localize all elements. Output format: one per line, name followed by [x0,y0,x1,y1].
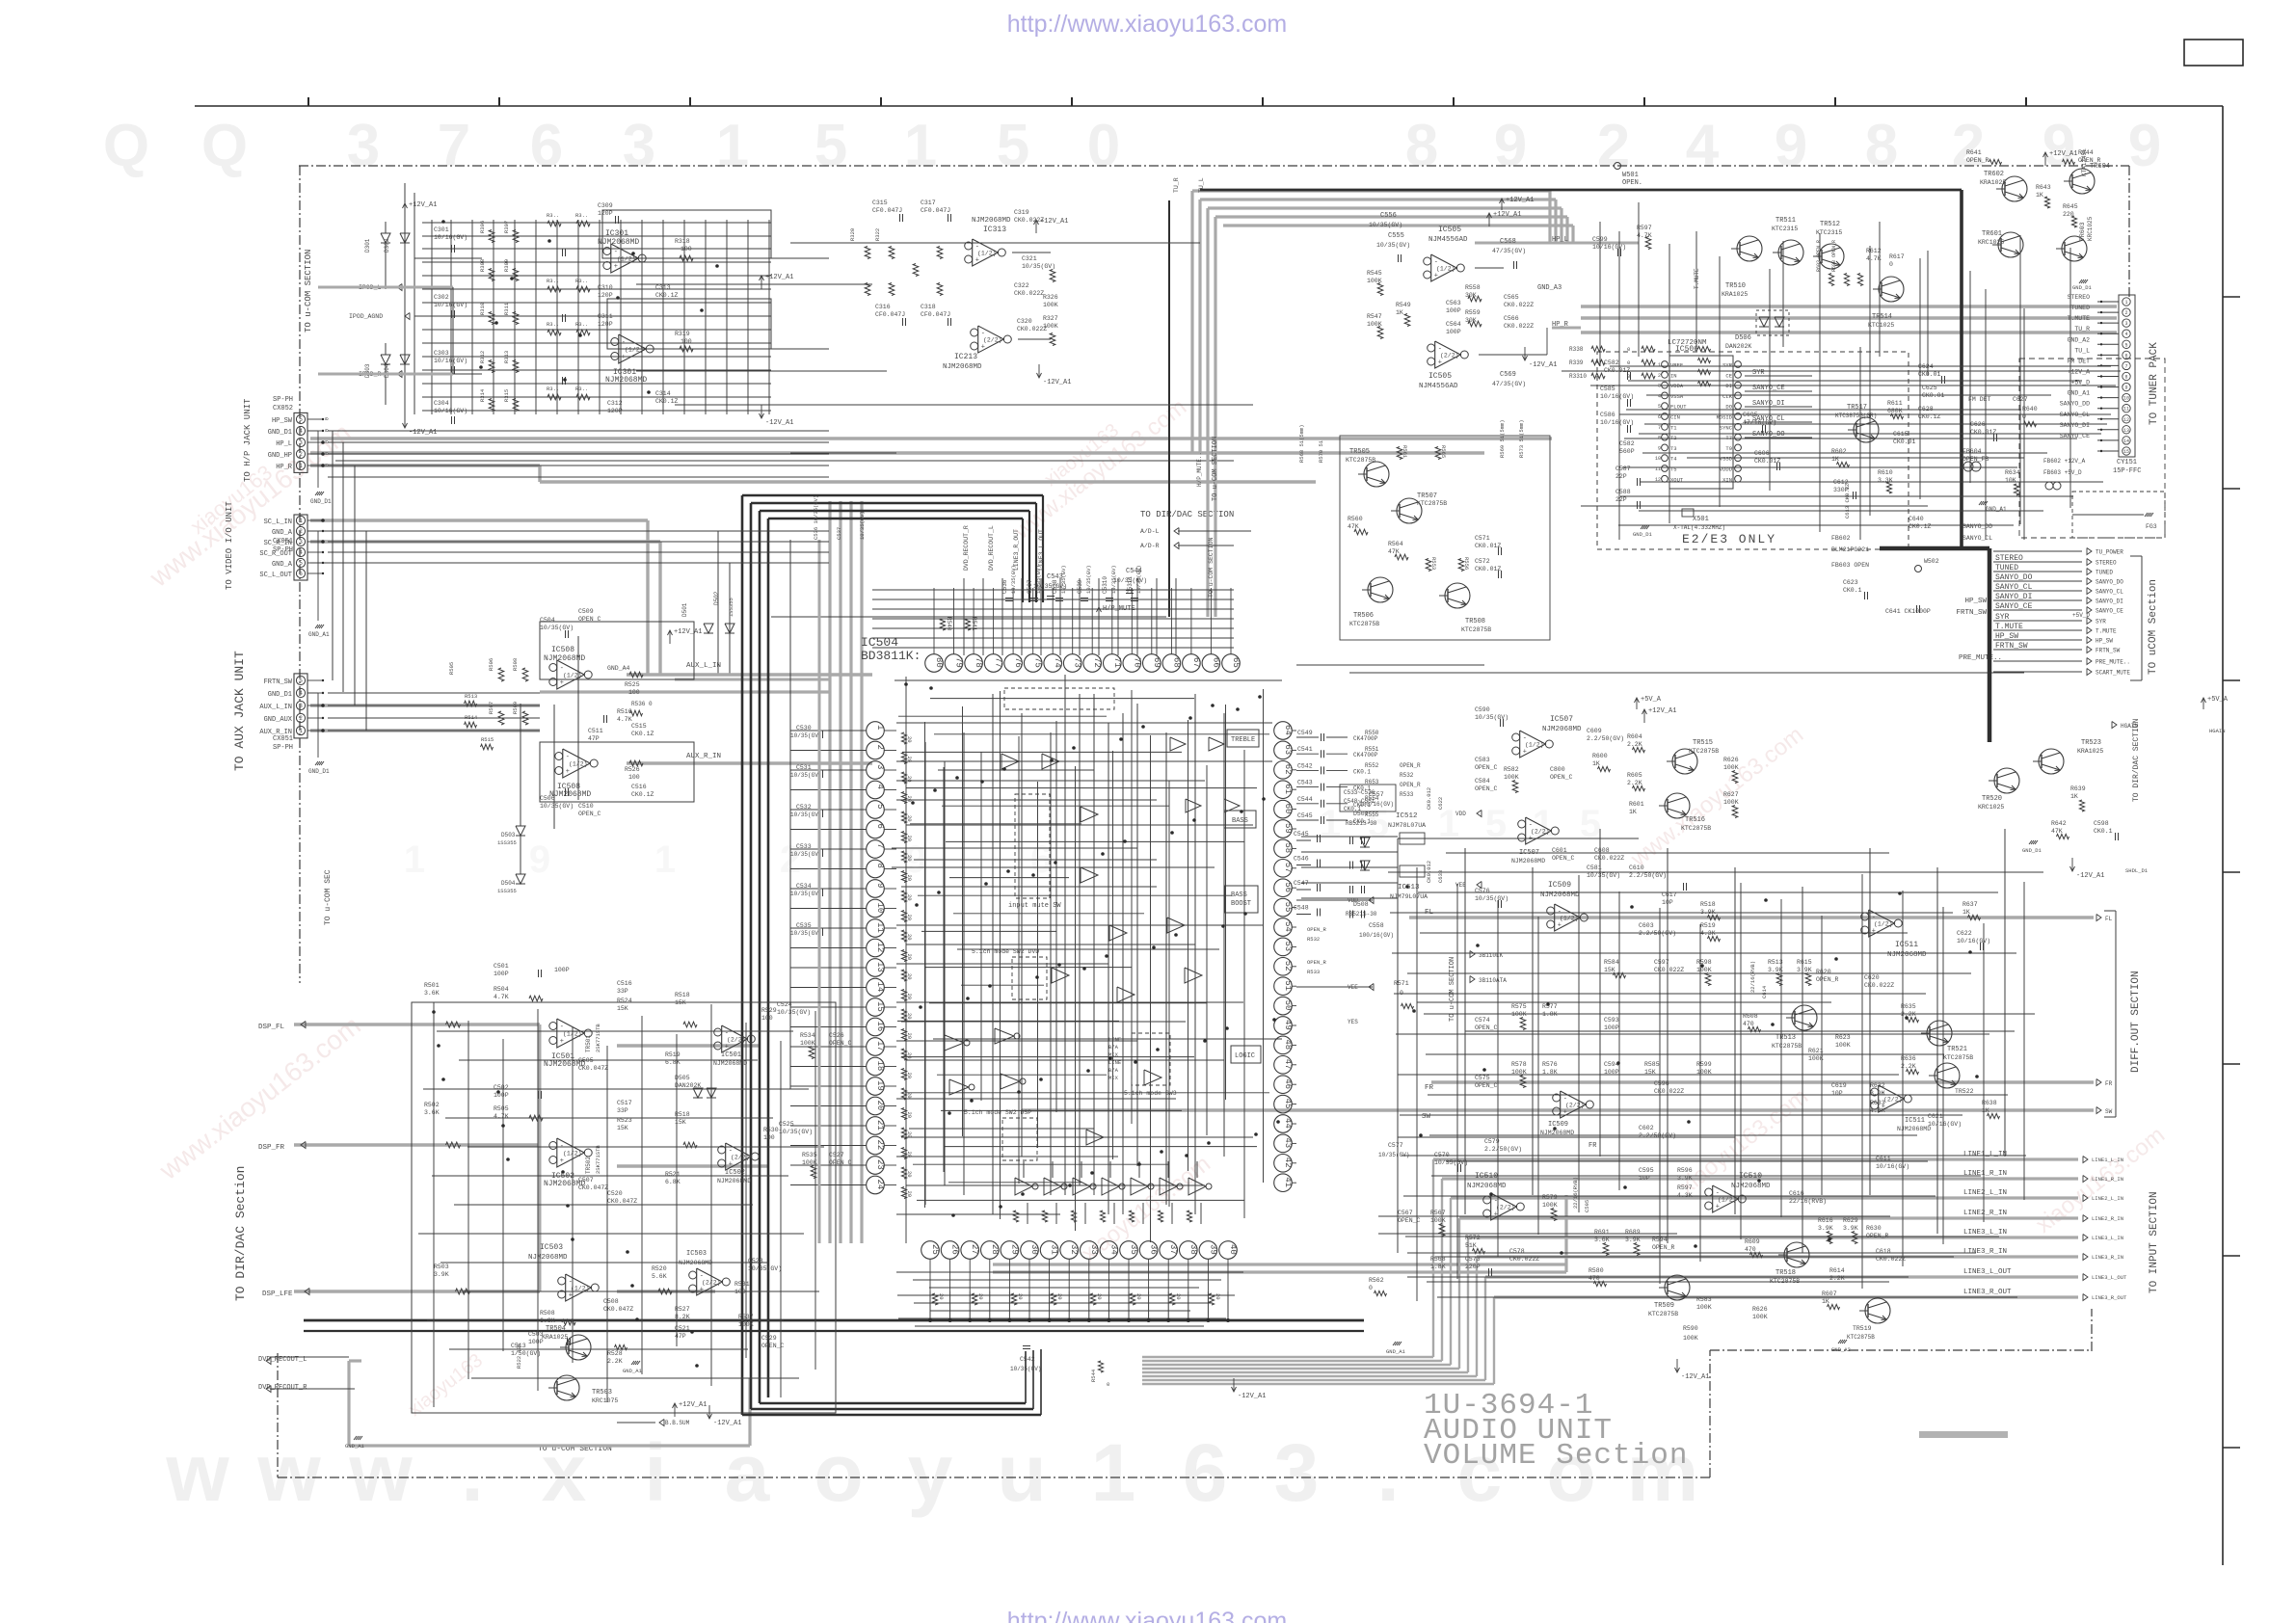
svg-text:TR504: TR504 [546,1325,566,1333]
svg-text:SC_L_IN: SC_L_IN [264,519,292,526]
svg-text:1: 1 [299,728,303,734]
svg-text:5: 5 [814,113,847,179]
svg-text:51: 51 [1283,980,1293,991]
svg-text:CK0.022Z: CK0.022Z [1504,302,1534,308]
svg-text:+12V_A1: +12V_A1 [1506,197,1534,204]
svg-text:1: 1 [654,838,676,881]
svg-text:GND_A3: GND_A3 [1537,284,1562,292]
svg-text:72: 72 [1092,657,1102,668]
svg-text:-12V_A1: -12V_A1 [713,1420,741,1427]
svg-text:2: 2 [1952,113,1985,179]
svg-text:4: 4 [299,690,303,697]
svg-text:C572: C572 [1475,558,1490,565]
svg-text:20: 20 [906,994,913,1000]
svg-text:R555: R555 [1365,811,1379,818]
svg-text:+: + [729,1161,733,1169]
svg-text:+12V_A1: +12V_A1 [1493,211,1521,219]
svg-text:100P: 100P [1446,307,1461,314]
svg-text:FR: FR [2105,1080,2113,1087]
svg-text:R612: R612 [1866,248,1882,254]
svg-text:20: 20 [906,757,913,763]
svg-text:0: 0 [1107,1381,1109,1388]
svg-text:100K: 100K [1043,302,1058,308]
svg-text:SANYO_DO: SANYO_DO [2096,579,2123,586]
svg-text:C321: C321 [1022,255,1037,262]
svg-text:C515: C515 [631,723,647,730]
svg-text:3.9K: 3.9K [1818,1225,1833,1232]
svg-text:TO TUNER PACK: TO TUNER PACK [2149,342,2160,425]
svg-text:GND_A1: GND_A1 [308,631,330,638]
svg-text:34: 34 [1108,1244,1118,1255]
svg-text:KRA1025: KRA1025 [2077,748,2103,755]
svg-text:R544: R544 [1090,1369,1097,1382]
svg-text:20: 20 [906,1191,913,1198]
svg-text:22P: 22P [1615,496,1627,503]
svg-text:PRE_MUTE..: PRE_MUTE.. [1959,654,2002,662]
svg-text:10/35(GV): 10/35(GV) [790,732,821,739]
svg-text:CK0.022Z: CK0.022Z [1014,290,1044,297]
svg-text:HP_SW: HP_SW [2096,638,2113,645]
svg-text:CF0.047J: CF0.047J [875,311,905,318]
svg-text:1: 1 [1320,803,1341,845]
svg-text:+: + [1438,359,1442,367]
svg-text:D301: D301 [364,238,371,253]
svg-text:TR521: TR521 [1947,1046,1967,1053]
svg-text:20: 20 [977,1293,984,1300]
svg-text:R533: R533 [1307,969,1320,975]
svg-text:CK0.012: CK0.012 [1426,787,1432,810]
svg-text:KTC2875B: KTC2875B [1681,825,1711,832]
svg-text:47: 47 [1283,1059,1293,1070]
svg-text:20: 20 [906,1013,913,1020]
svg-text:4: 4 [875,785,885,789]
svg-text:R582: R582 [1504,766,1519,773]
svg-text:D502: D502 [713,591,720,605]
svg-text:TR507: TR507 [1417,492,1437,500]
svg-text:11: 11 [2123,407,2129,412]
svg-text:1: 1 [716,113,749,179]
svg-text:20: 20 [906,934,913,941]
svg-text:NJM2068MD: NJM2068MD [1467,1183,1507,1190]
svg-text:R320: R320 [849,228,856,241]
svg-text:SANYO_CL: SANYO_CL [2060,412,2090,418]
svg-text:1: 1 [404,838,425,881]
svg-text:10P: 10P [1831,1090,1843,1097]
svg-text:100/16(GV): 100/16(GV) [1359,932,1394,939]
svg-text:CF0.047J: CF0.047J [921,311,950,318]
svg-text:DVD_RECOUT_L: DVD_RECOUT_L [988,525,995,571]
svg-text:C517: C517 [617,1100,632,1106]
svg-text:8: 8 [875,864,885,868]
svg-text:LINE: LINE [1108,1036,1122,1043]
svg-text:57: 57 [1283,863,1293,873]
svg-text:IC503: IC503 [540,1243,563,1252]
svg-text:9: 9 [1494,113,1527,179]
svg-text:IC507: IC507 [1519,849,1539,857]
svg-text:CK0.022Z: CK0.022Z [1504,323,1534,330]
svg-text:TO u-COM SEC: TO u-COM SEC [324,869,333,925]
svg-text:VDDA: VDDA [1670,383,1684,389]
svg-text:C547: C547 [1294,880,1309,887]
svg-text:2.2K: 2.2K [1829,1275,1845,1282]
svg-text:TR512: TR512 [1820,221,1840,228]
svg-text:R632: R632 [1870,1082,1885,1089]
svg-text:20: 20 [906,736,913,743]
svg-text:LINE1_R_IN: LINE1_R_IN [1963,1170,2007,1178]
svg-text:C579: C579 [1484,1138,1500,1145]
svg-text:http://www.xiaoyu163.com: http://www.xiaoyu163.com [1007,1608,1287,1623]
svg-text:C593: C593 [1604,1017,1619,1024]
svg-text:C301: C301 [434,226,449,233]
svg-text:R644: R644 [2078,149,2094,156]
svg-text:20: 20 [906,776,913,783]
svg-text:R600: R600 [1592,753,1608,759]
svg-text:SANYO_DD: SANYO_DD [2060,401,2090,408]
svg-text:3.9K: 3.9K [1625,1237,1641,1243]
svg-text:15: 15 [2123,449,2129,455]
svg-text:GND_A2: GND_A2 [1831,1346,1851,1353]
svg-text:C575: C575 [1475,1075,1490,1081]
svg-text:47K: 47K [1348,523,1359,530]
svg-text:CK0.1Z: CK0.1Z [1918,413,1941,420]
svg-text:HGAIN: HGAIN [2121,723,2138,730]
svg-text:69: 69 [1152,657,1161,668]
svg-text:-12V_A1: -12V_A1 [1238,1393,1266,1400]
svg-text:R550: R550 [1365,730,1379,736]
svg-text:OPEN_C: OPEN_C [1552,855,1575,862]
svg-text:TO uCOM Section: TO uCOM Section [2148,579,2159,675]
svg-text:LINE2_L_IN: LINE2_L_IN [2092,1195,2123,1202]
svg-text:22P: 22P [1615,473,1627,480]
svg-text:R623: R623 [1835,1034,1851,1041]
svg-text:C556: C556 [1380,212,1397,220]
svg-text:C800: C800 [1550,766,1565,773]
svg-text:100P: 100P [1446,329,1461,335]
svg-text:IC512: IC512 [1396,812,1418,820]
svg-text:HGAIN: HGAIN [2209,728,2226,734]
svg-text:+5V_A: +5V_A [1641,696,1662,704]
svg-text:NJM2068MD: NJM2068MD [544,654,585,663]
svg-text:R532: R532 [1307,936,1320,943]
svg-text:C641 CK1000P: C641 CK1000P [1885,608,1931,615]
svg-text:100K: 100K [800,1040,815,1047]
svg-text:C544: C544 [1126,568,1142,575]
svg-text:OPEN_R: OPEN_R [1816,976,1839,983]
svg-text:TO VIDEO I/O UNIT: TO VIDEO I/O UNIT [225,501,234,590]
svg-text:R558: R558 [1465,284,1481,291]
svg-text:A/D-R: A/D-R [1140,543,1160,549]
svg-text:SHDL_D1: SHDL_D1 [2125,867,2149,874]
svg-text:76: 76 [1013,657,1023,668]
svg-text:5: 5 [1658,404,1661,410]
svg-text:0: 0 [1087,113,1120,179]
svg-text:-12V_A1: -12V_A1 [1529,361,1557,369]
svg-text:C621: C621 [1928,1113,1943,1120]
svg-text:1K: 1K [2070,793,2078,800]
svg-text:R534: R534 [800,1032,815,1039]
svg-text:SCART_MUTE: SCART_MUTE [2096,670,2130,677]
svg-text:KRC1075: KRC1075 [592,1397,618,1404]
svg-text:CK0.01Z: CK0.01Z [1970,429,1996,436]
svg-text:C577: C577 [1388,1142,1403,1149]
svg-text:SW: SW [2105,1108,2113,1115]
svg-text:SANYO_DD: SANYO_DD [1962,523,1992,530]
svg-text:CK0.1Z: CK0.1Z [631,731,654,737]
svg-text:20: 20 [906,1171,913,1178]
svg-text:KRC1025: KRC1025 [1978,804,2004,811]
svg-text:SANYO_CE: SANYO_CE [2096,608,2123,615]
svg-text:R547: R547 [1367,313,1382,320]
svg-text:R598 OPEN_R: R598 OPEN_R [1831,240,1837,272]
svg-text:R572: R572 [1465,1235,1481,1241]
svg-text:CF0.047J: CF0.047J [921,207,950,214]
svg-text:IC501: IC501 [721,1051,741,1059]
svg-text:100: 100 [763,1134,775,1141]
svg-text:10/35(GV): 10/35(GV) [777,1009,811,1016]
svg-text:37: 37 [1168,1244,1178,1255]
svg-text:KRA1025: KRA1025 [542,1334,568,1341]
svg-text:R530: R530 [763,1127,779,1133]
svg-text:C620: C620 [1864,974,1880,981]
svg-text:NJM2068MD: NJM2068MD [713,1060,747,1067]
svg-text:470: 470 [1745,1246,1756,1253]
svg-text:74: 74 [1053,657,1062,668]
svg-text:B/A: B/A [1108,1067,1119,1074]
svg-text:10/35(GV): 10/35(GV) [790,772,821,779]
svg-text:20: 20 [906,1073,913,1079]
svg-text:CE: CE [1725,372,1732,379]
svg-text:CK0.1: CK0.1 [2094,828,2113,835]
svg-text:C584: C584 [1475,778,1490,785]
svg-text:C546: C546 [1294,856,1309,863]
svg-text:KTC2875B: KTC2875B [1943,1054,1973,1061]
svg-text:C505: C505 [578,1057,594,1064]
svg-text:D506: D506 [1735,334,1751,342]
svg-text:20: 20 [1056,1293,1063,1300]
svg-text:PRE_MUTE..: PRE_MUTE.. [2096,659,2130,666]
svg-text:T1: T1 [1670,424,1677,431]
svg-text:31: 31 [1050,1244,1059,1255]
svg-text:TR502: TR502 [585,1157,592,1174]
svg-text:CK0.01Z: CK0.01Z [1475,566,1501,572]
svg-text:R634: R634 [2005,469,2020,476]
svg-text:7: 7 [1658,425,1661,431]
svg-text:FB602 +12V_A: FB602 +12V_A [2043,458,2086,465]
svg-text:3.9K: 3.9K [1797,967,1812,973]
svg-text:100K: 100K [1511,1011,1527,1018]
svg-text:CK0.022Z: CK0.022Z [1654,967,1684,973]
svg-text:TO INPUT SECTION: TO INPUT SECTION [2149,1191,2160,1293]
svg-text:C537: C537 [836,527,842,540]
svg-text:C574: C574 [1475,1017,1490,1024]
svg-text:20: 20 [906,796,913,803]
svg-text:TO H/P JACK UNIT: TO H/P JACK UNIT [243,398,253,482]
svg-text:R308: R308 [479,259,486,272]
svg-text:R513: R513 [465,693,477,700]
svg-text:TR601: TR601 [1982,230,2002,238]
svg-text:20: 20 [906,1112,913,1119]
svg-text:C564: C564 [1446,321,1461,328]
svg-text:GND_D1: GND_D1 [2072,284,2093,291]
svg-text:+: + [1529,836,1533,843]
svg-text:66: 66 [1211,657,1220,668]
svg-text:CK0.022Z: CK0.022Z [1654,1088,1684,1095]
svg-text:TR509: TR509 [1654,1302,1674,1310]
svg-text:R554: R554 [1365,795,1379,802]
svg-text:R509: R509 [512,702,519,714]
svg-text:6: 6 [530,113,563,179]
svg-text:560P: 560P [1619,448,1635,455]
svg-text:100K: 100K [1043,323,1058,330]
svg-text:GND_A4: GND_A4 [607,665,630,672]
svg-text:100: 100 [761,1015,773,1022]
svg-text:1SS355: 1SS355 [728,598,734,617]
svg-text:R571: R571 [1394,980,1409,987]
svg-text:C611: C611 [1876,1156,1891,1162]
svg-text:w: w [165,1427,229,1518]
svg-text:TU_L: TU_L [2074,347,2090,354]
svg-text:100K: 100K [1723,764,1739,771]
svg-text:C541: C541 [1297,746,1313,753]
svg-text:TU_POWER: TU_POWER [2096,549,2123,556]
svg-text:R585: R585 [1644,1061,1660,1068]
svg-text:VSSD: VSSD [1720,456,1733,463]
svg-text:C608: C608 [1594,847,1610,854]
svg-text:C614: C614 [1761,985,1768,998]
svg-text:C588: C588 [1615,489,1631,495]
svg-text:TR519: TR519 [1853,1325,1872,1332]
svg-text:AUX_L_IN: AUX_L_IN [259,704,292,711]
svg-text:TR510: TR510 [1725,282,1746,290]
svg-text:R522 10K: R522 10K [516,1343,522,1369]
svg-text:3.9K: 3.9K [1700,909,1716,916]
svg-text:C576: C576 [1475,888,1490,894]
svg-text:C595: C595 [1639,1167,1654,1174]
svg-text:TR511: TR511 [1775,217,1796,225]
svg-text:10/35(GV): 10/35(GV) [1369,222,1402,228]
svg-text:+: + [725,1044,729,1051]
svg-text:12: 12 [2123,417,2129,423]
svg-text:CK0.01: CK0.01 [1922,392,1945,399]
svg-text:C528: C528 [748,1258,763,1264]
svg-text:100P: 100P [494,971,509,977]
svg-text:R502: R502 [424,1102,440,1108]
svg-text:20: 20 [906,915,913,921]
svg-text:C605: C605 [1743,412,1758,418]
svg-text:+12V_A1: +12V_A1 [1648,707,1676,715]
svg-text:0: 0 [1400,990,1403,997]
svg-text:C508: C508 [603,1298,619,1305]
svg-text:42: 42 [1283,1157,1293,1168]
svg-text:R565: R565 [1440,445,1447,458]
svg-text:R318: R318 [675,238,690,245]
svg-text:R559: R559 [1465,309,1481,316]
svg-text:R536 0: R536 0 [631,701,653,707]
svg-text:KRC1025: KRC1025 [2087,216,2094,241]
svg-text:OPEN.: OPEN. [1622,179,1642,187]
svg-text:(1/2): (1/2) [1525,742,1544,749]
svg-text:DIFF.OUT SECTION: DIFF.OUT SECTION [2130,971,2142,1073]
svg-text:T.MUTE: T.MUTE [1995,623,2023,631]
svg-text:15P-FFC: 15P-FFC [2113,467,2141,475]
svg-text:1: 1 [1658,362,1661,368]
svg-text:10/35(GV): 10/35(GV) [1434,1159,1468,1166]
svg-text:21: 21 [875,1120,885,1131]
svg-text:R526: R526 [625,766,640,773]
svg-text:(1/2): (1/2) [569,761,588,768]
svg-text:4: 4 [1658,393,1661,399]
svg-text:5.6K: 5.6K [652,1273,667,1280]
svg-text:TO u-COM SECTION: TO u-COM SECTION [304,250,313,333]
svg-text:LINE2_R_IN: LINE2_R_IN [2092,1215,2123,1222]
svg-text:HP_SW: HP_SW [1995,632,2018,641]
svg-text:100K: 100K [1835,1042,1851,1049]
svg-text:38: 38 [1188,1244,1198,1255]
svg-text:3: 3 [623,113,655,179]
svg-text:OPEN_C: OPEN_C [1475,785,1498,792]
svg-text:C563: C563 [1446,300,1461,306]
svg-text:SYR: SYR [1722,362,1733,369]
svg-text:C583: C583 [1475,757,1490,763]
svg-text:R531: R531 [734,1281,750,1288]
svg-text:R3310: R3310 [1569,373,1587,380]
svg-text:LINE2_R_IN: LINE2_R_IN [1963,1210,2007,1217]
svg-text:67: 67 [1191,657,1201,668]
svg-text:22/16(RVB): 22/16(RVB) [1572,1177,1579,1209]
svg-text:FR: FR [1589,1142,1597,1150]
svg-text:R575: R575 [1511,1003,1527,1010]
svg-text:IC511: IC511 [1895,941,1918,949]
svg-text:70: 70 [1132,657,1141,668]
svg-text:48: 48 [1283,1039,1293,1050]
svg-text:51K: 51K [1465,1242,1477,1249]
svg-text:TREBLE: TREBLE [1231,736,1255,744]
svg-text:FB603 OPEN: FB603 OPEN [1831,562,1869,569]
svg-text:R627: R627 [1723,791,1739,798]
svg-text:5: 5 [299,678,303,684]
svg-text:C303: C303 [434,350,449,357]
svg-text:TO DIR/DAC Section: TO DIR/DAC Section [233,1166,248,1301]
svg-text:R653: R653 [1365,779,1379,785]
svg-text:2SK771STB: 2SK771STB [595,1145,601,1174]
svg-text:TUNED: TUNED [2096,570,2113,576]
svg-text:KTC3875S(GR): KTC3875S(GR) [1835,412,1877,419]
svg-text:NJM2068MD: NJM2068MD [1731,1183,1771,1190]
svg-text:FM DET: FM DET [1968,396,1991,403]
svg-text:OPEN_C: OPEN_C [1475,1082,1498,1089]
svg-text:4: 4 [2124,332,2127,337]
svg-text:3: 3 [2124,321,2127,327]
svg-text:SC_R_OUT: SC_R_OUT [259,550,292,558]
svg-text:R3..: R3.. [575,212,588,219]
svg-text:58: 58 [1283,842,1293,853]
svg-text:GND_A1: GND_A1 [1386,1348,1406,1355]
svg-text:3.9K: 3.9K [1843,1225,1858,1232]
svg-text:3: 3 [875,764,885,769]
svg-text:100K: 100K [1752,1314,1768,1320]
svg-text:DSP_FL: DSP_FL [258,1024,285,1031]
svg-text:23: 23 [875,1159,885,1170]
svg-text:80: 80 [934,657,944,668]
svg-text:15K: 15K [617,1125,628,1131]
svg-text:B.B.SUM: B.B.SUM [665,1420,690,1426]
svg-text:75: 75 [1033,657,1043,668]
svg-text:56: 56 [1283,882,1293,892]
svg-text:D504: D504 [501,880,516,887]
svg-text:4.3K: 4.3K [1677,1192,1693,1199]
svg-text:0: 0 [323,417,330,420]
svg-text:http://www.xiaoyu163.com: http://www.xiaoyu163.com [1007,11,1287,38]
